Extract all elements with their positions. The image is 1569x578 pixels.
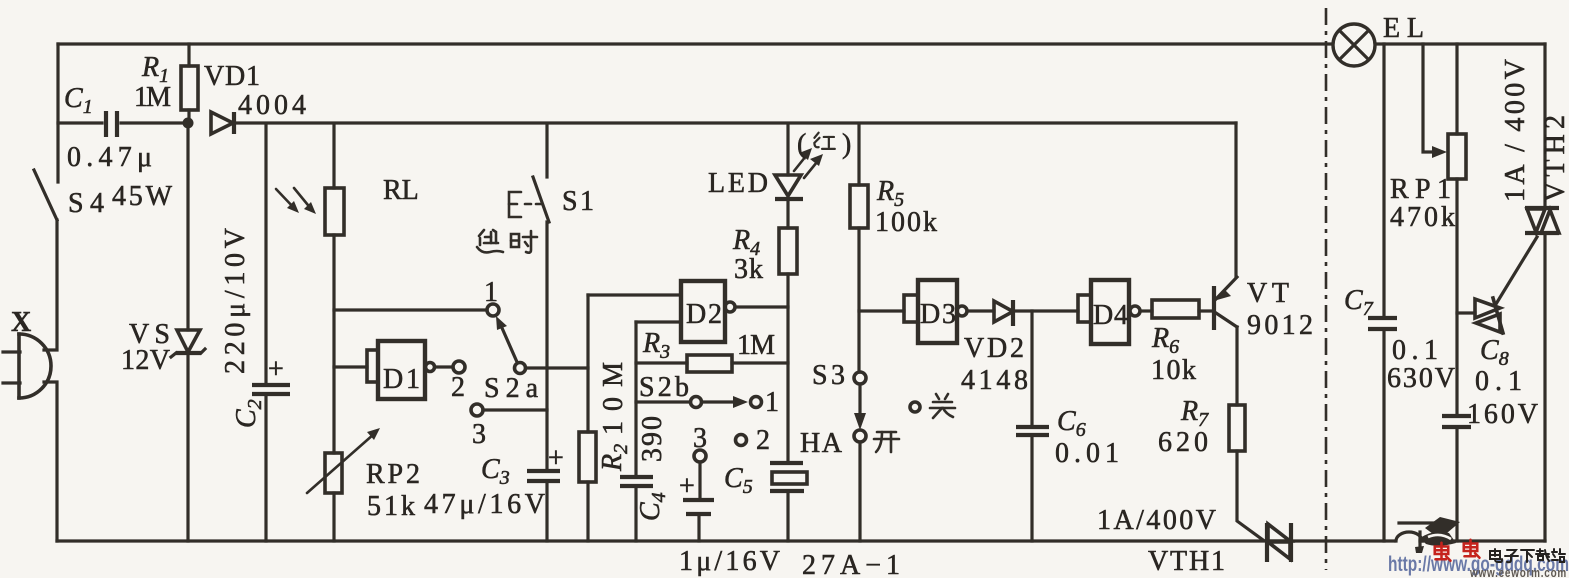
- label guan (off): [930, 394, 955, 418]
- capacitor C3: [527, 471, 560, 541]
- svg-text:RP1: RP1: [1390, 174, 1451, 205]
- wire: left vertical to plug: [44, 220, 57, 350]
- capacitor C4: [620, 477, 653, 541]
- plug X: [3, 334, 51, 398]
- LED emission arrows: [794, 148, 823, 178]
- svg-text:RP2: RP2: [366, 459, 420, 490]
- wire: bottom rail left: [57, 539, 1267, 542]
- gate D2: [588, 281, 788, 342]
- svg-text:HA: HA: [800, 428, 843, 459]
- svg-text:390: 390: [637, 416, 668, 462]
- resistor R1: [181, 44, 198, 123]
- wire: RL column to S2a contact 1: [334, 308, 486, 311]
- diode VD1: [211, 112, 234, 134]
- diode VD2: [994, 300, 1078, 326]
- switch S2a contact 2: [453, 361, 465, 373]
- gate D1: [334, 341, 452, 399]
- capacitor C7: [1368, 44, 1397, 541]
- divider dash-dot line: [1325, 8, 1328, 570]
- svg-text:12V: 12V: [121, 345, 170, 376]
- svg-text:2: 2: [451, 372, 465, 403]
- label kai (on): [874, 432, 899, 452]
- svg-text:): ): [842, 129, 851, 160]
- wire: VD1 output rail: [236, 121, 1236, 124]
- resistor R5: [850, 124, 868, 372]
- resistor R2: [579, 295, 596, 541]
- svg-text:D3: D3: [920, 299, 956, 330]
- svg-text:S2a: S2a: [484, 373, 539, 404]
- svg-text:+: +: [679, 471, 695, 502]
- switch S4 blade: [34, 170, 57, 220]
- capacitor C2: [252, 124, 290, 541]
- switch S1: [533, 124, 549, 470]
- switch S2a common and arm: [496, 316, 588, 374]
- svg-text:0.47μ: 0.47μ: [67, 142, 152, 173]
- svg-text:D1: D1: [383, 364, 420, 395]
- svg-text:+: +: [268, 354, 284, 385]
- wire: R5 column to D3 input: [859, 309, 904, 312]
- svg-text:10M: 10M: [598, 362, 629, 435]
- S1 delay actuator bracket: [509, 192, 541, 217]
- svg-text:51k: 51k: [367, 491, 415, 522]
- switch S2b arm arrow: [702, 396, 748, 408]
- light arrows into RL: [276, 188, 316, 214]
- S3 off contact: [910, 402, 920, 412]
- potentiometer RP2: [307, 428, 380, 541]
- svg-text:D4: D4: [1093, 300, 1128, 331]
- wire: stub above hop: [1399, 521, 1444, 524]
- diac: [1457, 237, 1537, 333]
- triac VTH2: [1525, 208, 1559, 233]
- svg-text:1: 1: [484, 277, 498, 308]
- svg-text:630V: 630V: [1387, 363, 1455, 394]
- zener diode VS: [171, 123, 205, 541]
- svg-text:+: +: [548, 443, 564, 474]
- label yanshi (delay): [477, 230, 503, 252]
- svg-text:45W: 45W: [112, 181, 173, 212]
- svg-text:1A/400V: 1A/400V: [1097, 505, 1216, 536]
- switch S2a contact 1: [487, 304, 499, 316]
- wire: right edge upper: [1543, 44, 1546, 208]
- svg-text:VD2: VD2: [964, 333, 1024, 364]
- svg-text:X: X: [11, 307, 31, 338]
- lamp EL: [1333, 24, 1375, 66]
- switch S2b contact 2: [736, 435, 747, 446]
- svg-text:3: 3: [472, 419, 486, 450]
- svg-text:RL: RL: [383, 175, 419, 206]
- capacitor C1: [58, 111, 184, 137]
- wire: top rail: [58, 42, 1545, 45]
- LED: [775, 124, 803, 228]
- switch S2b contact 3: [694, 450, 706, 498]
- watermark graduation cap: [1415, 517, 1460, 553]
- wire: rail corner down to VT emitter: [1234, 123, 1237, 277]
- svg-text:0.1: 0.1: [1475, 366, 1522, 397]
- svg-text:2: 2: [756, 425, 770, 456]
- wire: right edge lower: [1543, 234, 1546, 541]
- wire: left vertical upper: [56, 44, 59, 182]
- capacitor C8: [1442, 416, 1471, 541]
- resistor R4: [779, 228, 797, 461]
- svg-text:3: 3: [693, 423, 707, 454]
- svg-text:620: 620: [1158, 427, 1208, 458]
- switch S3: [854, 372, 866, 541]
- wire: plug lower to bottom rail: [44, 382, 57, 541]
- switch S2a contact 3: [471, 404, 547, 416]
- triac VTH1: [1267, 523, 1291, 562]
- gate D4: [1078, 280, 1152, 344]
- svg-text:1: 1: [765, 387, 779, 418]
- watermark dianzi xiazaizhan black: [1490, 549, 1565, 562]
- capacitor C5: [683, 500, 714, 541]
- transistor VT 9012: [1214, 277, 1237, 405]
- label (hong) red: [797, 129, 851, 160]
- switch S2b common: [636, 397, 702, 408]
- wire: bottom rail right: [1420, 539, 1545, 542]
- wire: bottom rail hop: [1396, 532, 1422, 541]
- svg-text:www.eeworm.com: www.eeworm.com: [1469, 565, 1567, 578]
- svg-text:160V: 160V: [1467, 399, 1538, 430]
- svg-text:10k: 10k: [1151, 355, 1196, 386]
- node: junction dot R1/C1/VD1: [183, 118, 194, 129]
- svg-text:S2b: S2b: [639, 372, 689, 403]
- svg-text:0.01: 0.01: [1055, 438, 1119, 469]
- resistor R3: [636, 355, 788, 372]
- svg-text:1M: 1M: [737, 330, 775, 361]
- svg-text:47μ/16V: 47μ/16V: [424, 489, 545, 520]
- svg-text:0.1: 0.1: [1392, 335, 1438, 366]
- resistor R6: [1152, 300, 1212, 318]
- potentiometer RP1: [1448, 44, 1466, 414]
- svg-text:LED: LED: [708, 168, 768, 199]
- watermark chongchong red: [1435, 540, 1480, 561]
- potentiometer RP1 wiper: [1423, 44, 1447, 158]
- svg-text:3k: 3k: [734, 254, 763, 285]
- gate D3: [904, 280, 994, 343]
- svg-text:D2: D2: [686, 299, 722, 330]
- photoresistor RL: [325, 124, 344, 453]
- svg-text:(: (: [797, 129, 806, 160]
- switch S2b contact 1: [751, 397, 762, 408]
- resistor R7: [1229, 405, 1263, 540]
- capacitor C6: [1016, 311, 1049, 541]
- svg-text:VTH1: VTH1: [1148, 546, 1225, 577]
- svg-text:VD1: VD1: [204, 61, 260, 92]
- wire: column x636: [634, 322, 637, 476]
- buzzer HA: [770, 463, 807, 541]
- wire: bottom rail mid: [1291, 539, 1394, 542]
- svg-text:1M: 1M: [134, 82, 171, 113]
